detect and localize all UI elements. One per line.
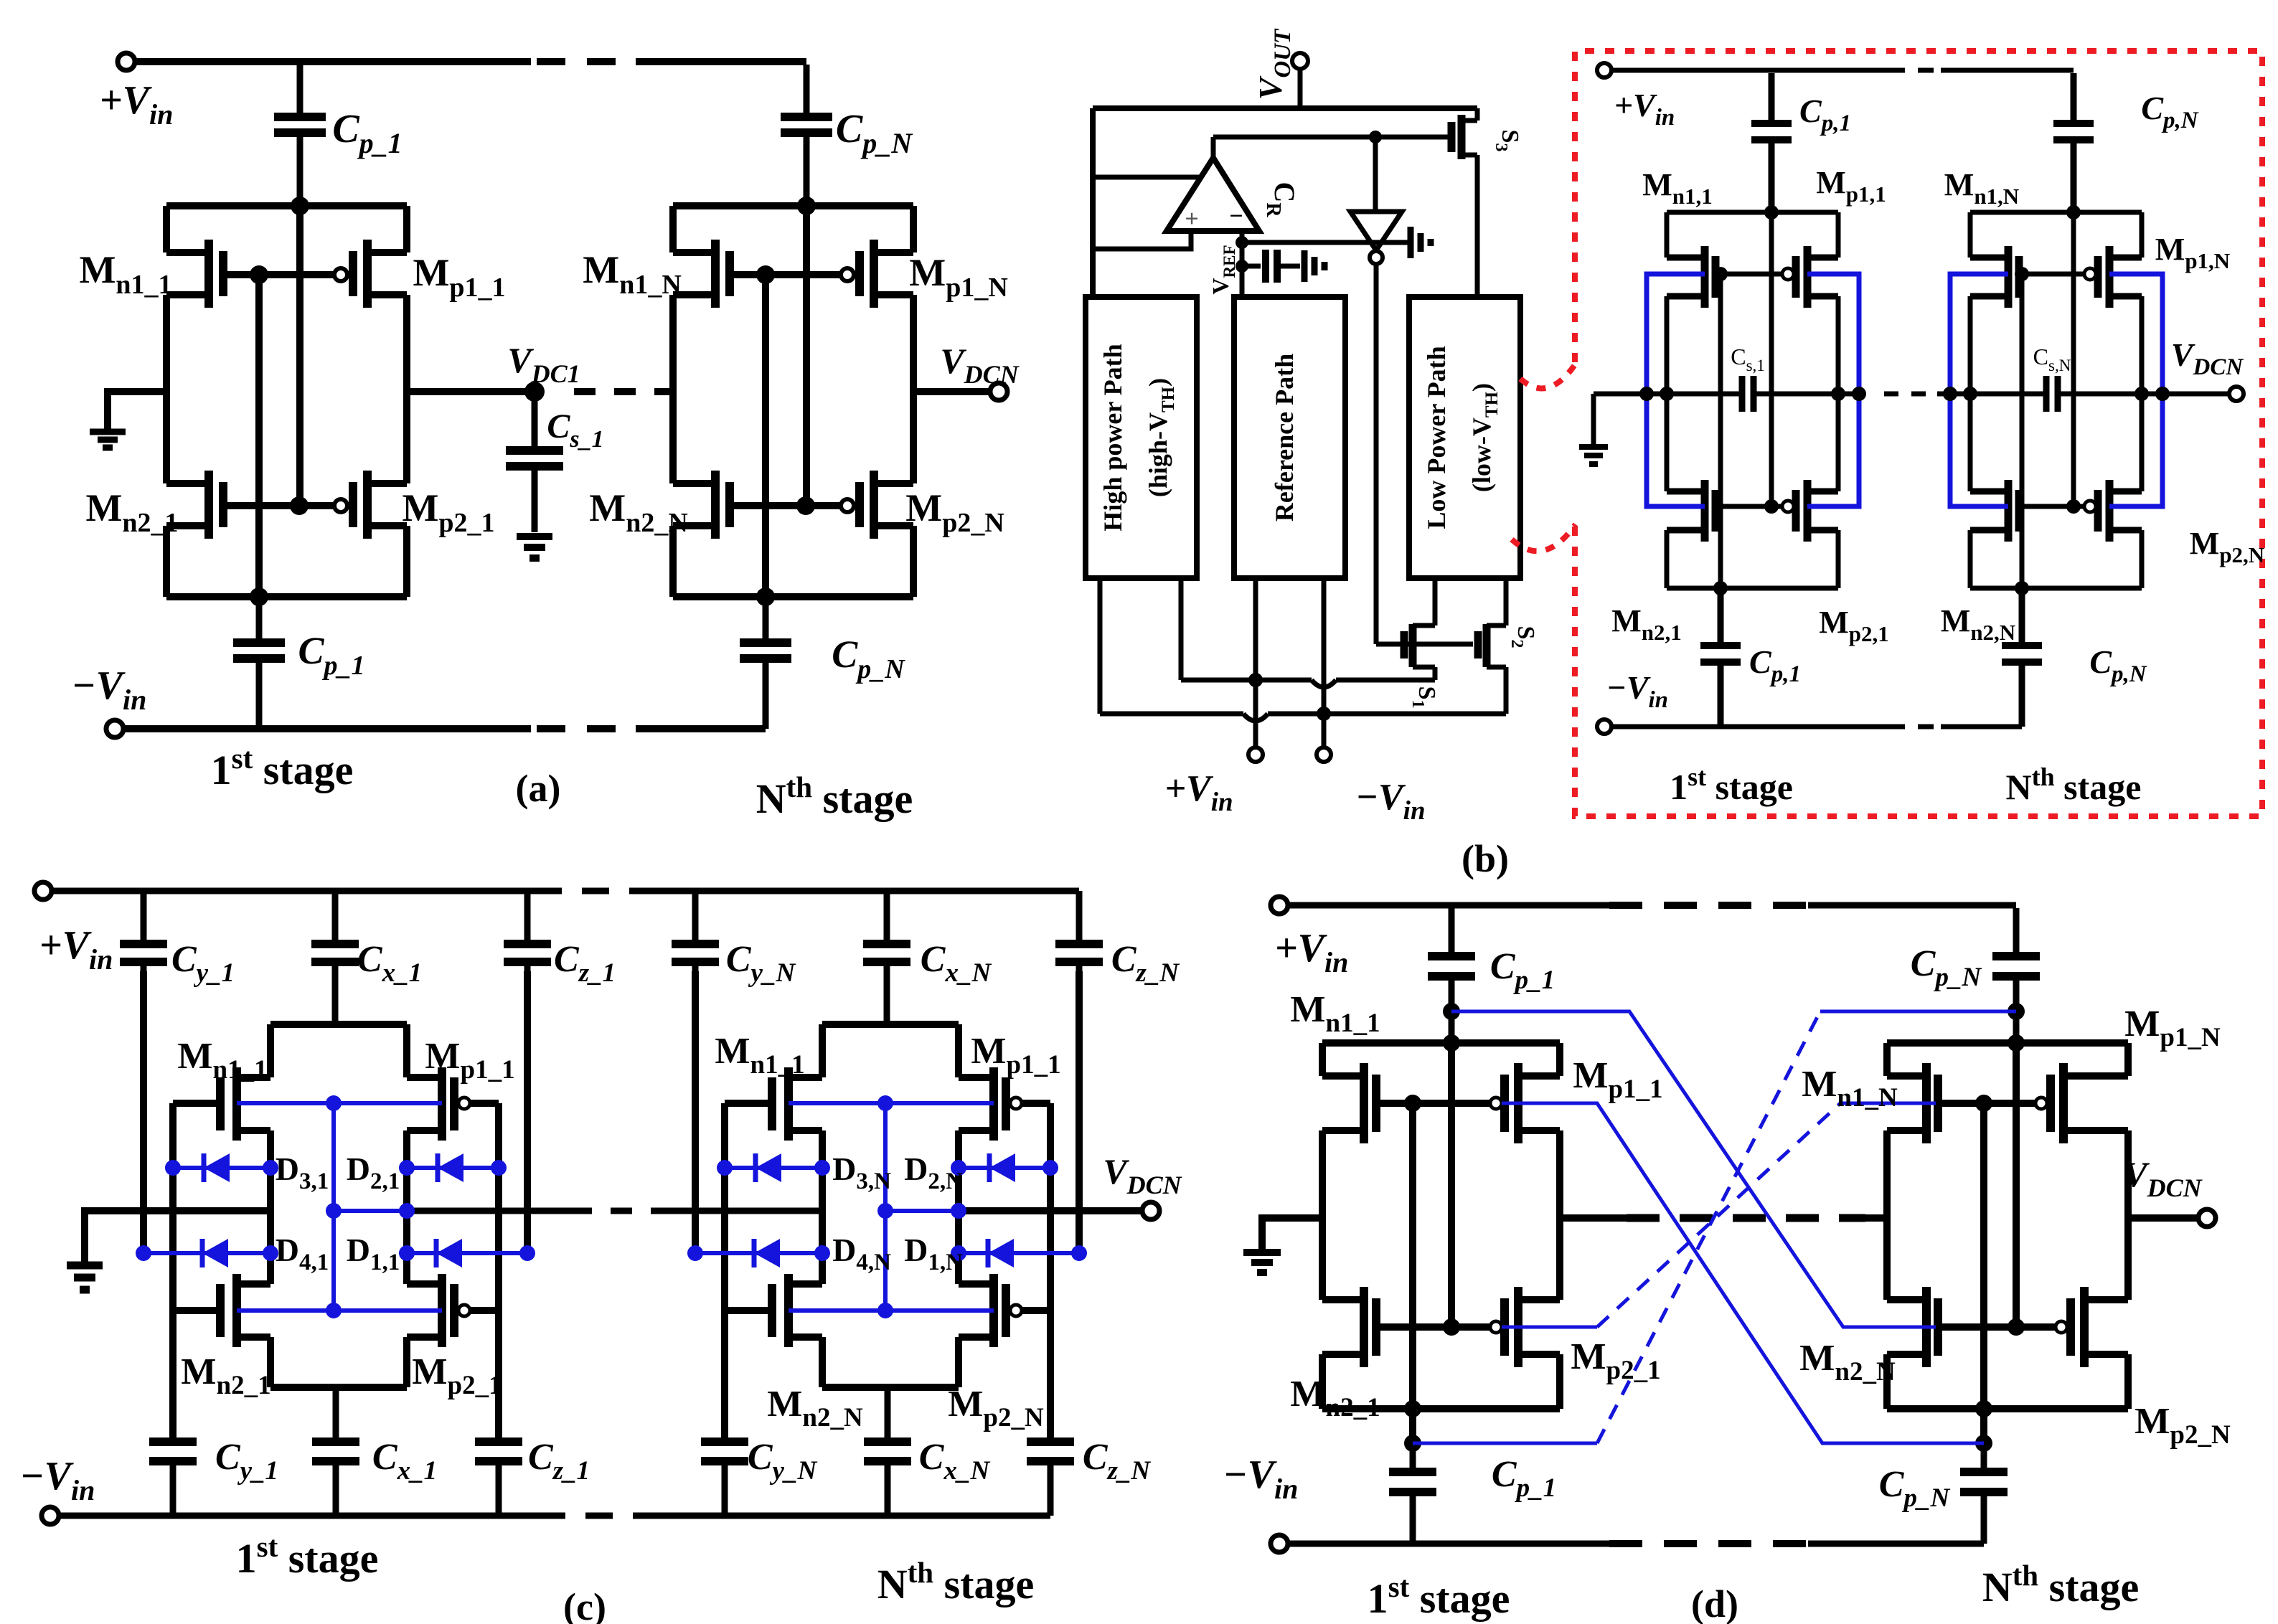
wire box right vertical (c) stage N: [955, 1024, 962, 1387]
wire box top (b right) stage N: [1970, 210, 2142, 215]
capacitor Cp_N top (a): [781, 65, 832, 206]
blue wire A top-cap to Mn2_N gate (d): [1451, 1011, 1936, 1327]
wire -Vin rail (d): [1288, 1541, 1984, 1547]
wire VDCN out (d): [2128, 1214, 2198, 1222]
ground below Cs_1 (a): [517, 537, 552, 558]
transistor Mn1 (c) stage N: [772, 1067, 822, 1141]
transistor Mn2_N (d): [1887, 1287, 1938, 1367]
wire -Vin rail dashes (a): [537, 725, 636, 732]
wire cap-to-lower-gate vertical (b right) stage N: [2071, 212, 2076, 506]
svg-text:Low Power Path: Low Power Path: [1422, 346, 1451, 529]
wire Mn1 gate lead (b right) stage 1: [1715, 272, 1721, 277]
diode D4,1 (c): [143, 1239, 270, 1267]
capacitor VREF bypass (b): [1242, 250, 1300, 283]
wire box right vertical (c) stage 1: [403, 1024, 410, 1387]
wire Cy vertical to D4 (c) stage N: [692, 971, 699, 1253]
node box top node (d) stage N: [2008, 1034, 2025, 1052]
wire gate line upper (a) stage 1: [259, 271, 334, 278]
wire Cz vertical to D1 (c) stage N: [1076, 971, 1083, 1253]
red dashed enclosure (b): [1575, 51, 2262, 816]
transistor Mn2,1 (b right): [1667, 480, 1715, 542]
wire box bottom (d) stage N: [1887, 1405, 2128, 1412]
wire cap-to-lower-gate vertical (a) stage 1: [296, 206, 303, 506]
ground right of inverter (b): [1411, 227, 1431, 258]
node upper gate node (b right) stage N: [2015, 267, 2029, 281]
terminal +Vin (a): [118, 53, 135, 70]
wire box left vertical (b right) stage 1: [1665, 212, 1670, 588]
terminal VDCN (a): [990, 383, 1007, 400]
wire Mn1 gate lead (b right) stage N: [2019, 272, 2022, 277]
wire lower gate line (d) stage N: [1938, 1323, 2056, 1331]
wire -Vin rail (b right): [1613, 724, 2022, 730]
node gate node upper (a) stage 1: [250, 265, 268, 284]
wire ground lead (c): [81, 1207, 88, 1264]
wire box top (d) stage 1: [1322, 1039, 1560, 1047]
blue gate bracket right (b right) stage N: [2109, 274, 2162, 506]
wire box right vertical (b right) stage 1: [1836, 212, 1841, 588]
transistor Mn2 (c) stage N: [772, 1274, 822, 1347]
transistor Mn1_N (a): [673, 240, 730, 308]
blue mid link (c) stage N: [885, 1209, 959, 1213]
wire Mn2 gate lead (a) stage 1: [223, 502, 299, 509]
wire gate-to-bottom vertical (a) stage N: [762, 275, 769, 597]
node lower gate node (b right) stage N: [2066, 499, 2081, 514]
capacitor Cy_N top (c): [672, 891, 719, 971]
capacitor Cp,1 top (b right): [1751, 73, 1792, 210]
transistor Mp1 (c) stage 1: [407, 1067, 454, 1141]
node rail blue right (b right) stage N: [2135, 387, 2149, 401]
block Reference Path (b): [1234, 297, 1345, 578]
wire Mp1 gate vertical (c) stage 1: [495, 1103, 502, 1442]
node VREF upper node (b): [1236, 236, 1248, 249]
wire -Vin rail dashes (c): [538, 1513, 656, 1519]
blue gate line lower (c) stage 1: [237, 1308, 442, 1313]
wire VOUT lead (b): [1298, 69, 1303, 108]
diode D4,N (c): [695, 1239, 822, 1267]
wire box bottom (b right) stage N: [1970, 586, 2142, 591]
transistor Mp2_1 (a): [334, 499, 347, 512]
wire ground stub (a): [108, 392, 166, 430]
panel (c) diode-assisted rectifier: [0, 0, 1, 1]
node blue tap bottom (d) stage 1: [1404, 1435, 1421, 1452]
svg-text:Reference Path: Reference Path: [1270, 354, 1299, 521]
red dashed pointer lower (b): [1512, 524, 1576, 551]
diode D1,N (c): [959, 1239, 1079, 1267]
wire cap-to-lower-gate vertical (d) stage 1: [1448, 1043, 1455, 1327]
wire Reference left lead (b): [1253, 578, 1258, 680]
capacitor Cp_1 bottom (a): [233, 597, 285, 729]
capacitor Cz_1 bottom (c): [475, 1442, 522, 1516]
transistor Mp2_N (d): [2056, 1321, 2067, 1333]
wire mid rail to Nth stage (a): [664, 388, 673, 395]
diode D1,1 (c): [407, 1239, 527, 1267]
capacitor Cp,N bottom (b right): [2002, 588, 2042, 727]
terminal -Vin (b right): [1597, 719, 1611, 734]
wire ground stub (d): [1262, 1218, 1322, 1250]
svg-text:High power Path: High power Path: [1098, 344, 1127, 531]
wire Mp1 gate vertical (c) stage N: [1047, 1103, 1054, 1442]
transistor Mn2_N (a): [673, 471, 730, 539]
wire lower gate line (d) stage 1: [1376, 1323, 1490, 1331]
wire -Vin rail (b): [1100, 712, 1506, 717]
wire mid rail to stage N (d): [1865, 1214, 1887, 1222]
transistor Mn2_1 (a): [166, 471, 223, 539]
transistor Mp1_1 (d): [1490, 1097, 1502, 1109]
capacitor Cp_N bottom (d): [1960, 1443, 2008, 1544]
wire box top (c) stage N: [822, 1021, 959, 1028]
wire box left vertical (a) stage N: [669, 206, 677, 597]
wire Cz vertical to D1 (c) stage 1: [524, 971, 531, 1253]
capacitor Cx_1 bottom (c): [312, 1387, 359, 1516]
node VREF node (b): [1236, 260, 1248, 273]
wire mid rail left segment (d): [1560, 1214, 1627, 1222]
transistor Mp2 (c) stage N: [959, 1274, 1006, 1347]
wire Mp1 gate lead (c) stage N: [1022, 1100, 1050, 1107]
node top plate node (a) stage N: [797, 197, 816, 215]
node blue junctions (c) stage N: [877, 1095, 893, 1111]
blue center vertical (c) stage N: [883, 1103, 888, 1311]
blue dashed wire D stage-1 bottom to Cp_N top (d): [1413, 1442, 1597, 1445]
capacitor Cp_1 bottom (d): [1389, 1443, 1436, 1544]
transistor Mp1,N (b right): [2084, 268, 2096, 280]
wire box right vertical (b right) stage N: [2140, 212, 2145, 588]
wire box top (d) stage N: [1887, 1039, 2128, 1047]
wire High power right lead (b): [1179, 578, 1184, 680]
wire op-amp minus input (b): [1240, 231, 1245, 244]
wire box left vertical (a) stage 1: [163, 206, 170, 597]
transistor Mn2 (c) stage 1: [220, 1274, 270, 1347]
wire inverter input (b): [1373, 137, 1378, 212]
capacitor Cz_1 top (c): [504, 891, 551, 971]
node top node (b right) stage N: [2066, 205, 2081, 219]
node blue tap top (d) stage N: [2008, 1003, 2025, 1020]
wire top rail (d): [1288, 902, 2016, 909]
svg-text:Nth stage: Nth stage: [877, 1556, 1035, 1608]
wire cap-to-lower-gate vertical (a) stage N: [803, 206, 810, 506]
block Low Power Path (b): [1409, 297, 1520, 578]
wire box top (b right) stage 1: [1667, 210, 1838, 215]
wire gate line lower (a) stage N: [806, 502, 841, 509]
wire box top (c) stage 1: [270, 1021, 407, 1028]
wire mid rail dashes (b right): [1884, 392, 1937, 397]
wire -Vin rail (c): [59, 1513, 1050, 1519]
ground (b right): [1579, 447, 1608, 464]
wire gate line S1 S2 (b): [1376, 642, 1473, 647]
svg-text:Nth stage: Nth stage: [1982, 1559, 2140, 1610]
terminal VDCN (d): [2198, 1209, 2216, 1227]
capacitor Cz_N top (c): [1055, 891, 1103, 971]
terminal +Vin (b): [1248, 747, 1263, 762]
svg-text:+: +: [1185, 206, 1198, 232]
capacitor Cx_N bottom (c): [864, 1387, 911, 1516]
wire High power left lead (b): [1098, 578, 1103, 714]
wire Mn1 gate lead (c) stage 1: [173, 1100, 220, 1107]
wire comparator output line (b): [1213, 135, 1449, 140]
wire top bus (b): [1093, 105, 1477, 111]
terminal +Vin (c): [34, 882, 52, 900]
svg-text:(a): (a): [516, 767, 561, 810]
wire gate line lower (a) stage 1: [299, 502, 334, 509]
red dashed pointer upper (b): [1520, 364, 1576, 388]
capacitor Cy_1 top (c): [120, 891, 167, 971]
transistor Mp2_1 (d): [1490, 1321, 1502, 1333]
capacitor Cx_N top (c): [863, 891, 910, 1024]
diode D3,N (c): [725, 1153, 822, 1182]
node rail blue left (b right) stage N: [1943, 387, 1957, 401]
blue gate bracket right (b right) stage 1: [1807, 274, 1859, 506]
ground (a): [90, 432, 126, 448]
node gate node lower (a) stage 1: [290, 496, 309, 515]
wire box bottom (c) stage 1: [270, 1384, 407, 1391]
capacitor Cx_1 top (c): [311, 891, 359, 1024]
node blue tap bottom (d) stage N: [1975, 1435, 1992, 1452]
node upper gate node (d) stage N: [1975, 1095, 1992, 1112]
wire top rail (c): [52, 888, 1079, 894]
wire gate-to-bottom vertical (b right) stage 1: [1718, 274, 1723, 588]
wire upper gate line (d) stage 1: [1376, 1100, 1490, 1107]
wire stage box top (a) stage N: [673, 202, 913, 209]
wire box right vertical (d) stage 1: [1556, 1043, 1563, 1409]
panel (a) cross-coupled rectifier: [0, 0, 1, 1]
wire -Vin rail to Nth stage (a): [636, 725, 766, 732]
capacitor Cp,N top (b right): [2053, 73, 2094, 210]
blue gate line upper (c) stage 1: [237, 1101, 442, 1105]
wire lower gate line (b right) stage N: [2019, 504, 2084, 509]
wire top rail (b right): [1613, 68, 2074, 73]
wire mid rail stage1 (b right): [1647, 392, 1859, 397]
wire Reference right lead (b): [1322, 578, 1327, 714]
wire Mn2 gate lead (c) stage 1: [173, 1307, 220, 1314]
node upper gate node (d) stage 1: [1404, 1095, 1421, 1112]
wire +Vin terminal lead (b): [1253, 680, 1258, 747]
wire gate line upper (a) stage N: [766, 271, 841, 278]
wire VDC1 output (a): [407, 388, 535, 395]
transistor Mn1_1 (a): [166, 240, 223, 308]
capacitor Cp_1 top (d): [1428, 908, 1475, 1043]
wire Mn1 gate lead (a) stage N: [730, 271, 766, 278]
wire box left vertical (c) stage N: [819, 1024, 826, 1387]
capacitor Cs_1 (a): [506, 392, 563, 532]
wire stage box bottom (a) stage 1: [166, 593, 407, 600]
transistor Mp1_N (a): [841, 268, 854, 281]
terminal VDCN (b right): [2229, 387, 2244, 401]
capacitor Cp_N bottom (a): [740, 597, 791, 729]
node top node (b right) stage 1: [1764, 205, 1779, 219]
block High power Path (b): [1086, 297, 1197, 578]
transistor Mp1,1 (b right): [1782, 268, 1794, 280]
diode D3,1 (c): [173, 1153, 270, 1182]
wire -Vin rail dashes (d): [1609, 1540, 1808, 1547]
wire inverter output down (b): [1374, 264, 1379, 644]
wire top rail dashes (b right): [1889, 68, 1941, 73]
svg-text:Nth stage: Nth stage: [756, 770, 913, 822]
wire gate-to-bottom vertical (d) stage 1: [1409, 1103, 1416, 1443]
capacitor Cs,1 (b right): [1742, 376, 1754, 412]
ground (c): [67, 1265, 103, 1290]
node lower gate node (d) stage N: [2008, 1318, 2025, 1336]
transistor Mp2_N (a): [841, 499, 854, 512]
wire top rail dashes (d): [1609, 902, 1808, 909]
transistor Mp1_N (d): [2035, 1097, 2047, 1109]
wire box bottom (d) stage 1: [1322, 1405, 1560, 1412]
wire box left vertical (c) stage 1: [267, 1024, 274, 1387]
wire top rail to Nth stage (a): [636, 58, 806, 65]
wire lower gate line (b right) stage 1: [1715, 504, 1782, 509]
wire gate-to-bottom vertical (d) stage N: [1980, 1103, 1987, 1443]
node bottom plate node (a) stage 1: [250, 587, 268, 606]
wire VREF vertical (b): [1240, 242, 1245, 297]
blue mid link (c) stage 1: [334, 1209, 407, 1213]
wire op-amp plus input stub (b): [1093, 231, 1191, 249]
node blue tap top (d) stage 1: [1443, 1003, 1460, 1020]
wire Mn1 gate lead (c) stage N: [725, 1100, 772, 1107]
blue gate line lower (c) stage N: [789, 1308, 994, 1313]
node VDC1 (a): [524, 382, 545, 402]
wire top rail dashes (c): [535, 888, 656, 894]
inverter U2 (b): [1350, 212, 1402, 250]
wire box right vertical (a) stage 1: [403, 206, 410, 597]
transistor Mn1_N (d): [1887, 1063, 1938, 1143]
wire Mp2 gate lead (c) stage N: [1022, 1307, 1050, 1314]
node bottom node (b right) stage N: [2015, 581, 2029, 595]
capacitor Cp,1 bottom (b right): [1700, 588, 1741, 727]
wire top rail dashes (a): [537, 58, 636, 65]
wire gate-to-bottom vertical (a) stage 1: [255, 275, 263, 597]
terminal -Vin (d): [1271, 1535, 1288, 1552]
wire mid rail dashes (c): [570, 1208, 656, 1214]
node upper gate node (b right) stage 1: [1713, 267, 1728, 281]
node blue junctions (c) stage 1: [326, 1095, 342, 1111]
terminal +Vin (b right): [1597, 63, 1611, 77]
node gate node lower (a) stage N: [796, 496, 815, 515]
transistor Mp1_1 (a): [334, 268, 347, 281]
diode D2,N (c): [959, 1153, 1050, 1182]
blue gate bracket left (b right) stage 1: [1647, 274, 1705, 506]
wire mid rail dashes (d): [1627, 1214, 1865, 1222]
wire box left vertical (d) stage 1: [1319, 1043, 1326, 1409]
transistor Mp2 (c) stage 1: [407, 1274, 454, 1347]
wire stage box bottom (a) stage N: [673, 593, 913, 600]
node rail blue left (b right) stage 1: [1639, 387, 1654, 401]
wire cap-to-lower-gate vertical (b right) stage 1: [1769, 212, 1774, 506]
terminal -Vin (c): [42, 1507, 59, 1524]
wire Mp1 gate lead (c) stage 1: [470, 1100, 499, 1107]
wire VDCN out (b right): [2162, 392, 2228, 397]
wire cap-to-lower-gate vertical (d) stage N: [2013, 1043, 2020, 1327]
node bottom plate node (a) stage N: [756, 587, 775, 606]
wire Mn1 gate vertical (c) stage 1: [169, 1103, 177, 1442]
terminal -Vin (a): [106, 720, 123, 737]
ground (d): [1243, 1252, 1281, 1273]
wire mid rail dashes (a): [574, 388, 664, 395]
node lower gate node (d) stage 1: [1443, 1318, 1460, 1336]
wire upper gate line (b right) stage N: [2022, 272, 2084, 277]
wire mid rail between stages (c): [407, 1208, 822, 1214]
transistor Mp1 (c) stage N: [959, 1067, 1006, 1141]
transistor Mn2,N (b right): [1970, 480, 2019, 542]
wire -Vin dashes (b right): [1889, 724, 1941, 730]
wire box bottom (b right) stage 1: [1667, 586, 1838, 591]
blue gate line upper (c) stage N: [789, 1101, 994, 1105]
transistor Mp2,1 (b right): [1782, 501, 1794, 512]
wire box left vertical (d) stage N: [1883, 1043, 1891, 1409]
wire Mn1 gate lead (a) stage 1: [223, 271, 259, 278]
wire Mn2 gate lead (c) stage N: [725, 1307, 772, 1314]
wire Cy vertical to D4 (c) stage 1: [140, 971, 147, 1253]
wire S3 source down (b): [1475, 155, 1480, 297]
capacitor Cp_1 top (a): [274, 65, 326, 206]
node gate node upper (a) stage N: [756, 265, 775, 284]
node bottom node (b right) stage 1: [1713, 581, 1728, 595]
capacitor Cy_N bottom (c): [701, 1442, 748, 1516]
wire stage box top (a) stage 1: [166, 202, 407, 209]
wire -Vin rail (a): [123, 725, 531, 732]
diode D2,1 (c): [407, 1153, 499, 1182]
transistor S2 (b): [1478, 578, 1506, 714]
wire VDCN output (a): [913, 388, 990, 395]
wire gate-to-bottom vertical (b right) stage N: [2020, 274, 2025, 588]
wire -Vin terminal lead (b): [1322, 714, 1327, 747]
wire upper gate line (b right) stage 1: [1721, 272, 1782, 277]
panel (b) control block diagram: [0, 0, 1, 1]
node bottom node (d) stage 1: [1404, 1400, 1421, 1417]
terminal VOUT (b): [1292, 53, 1308, 69]
wire VREF to inverter ground (b): [1242, 240, 1408, 245]
capacitor Cp_N top (d): [1992, 908, 2040, 1043]
wire upper gate line (d) stage N: [1938, 1100, 2035, 1107]
transistor Mn1,1 (b right): [1667, 246, 1715, 308]
node box top node (d) stage 1: [1443, 1034, 1460, 1052]
node bottom node (d) stage N: [1975, 1400, 1992, 1417]
wire Mn2 gate lead (a) stage N: [730, 502, 806, 509]
node top plate node (a) stage 1: [291, 197, 309, 215]
wire mid rail left (c): [85, 1207, 270, 1214]
wire VDCN out (c): [959, 1207, 1142, 1214]
transistor S1 (b): [1404, 578, 1435, 680]
transistor Mp2,N (b right): [2084, 501, 2096, 512]
wire box left vertical (b right) stage N: [1968, 212, 1973, 588]
wire Mp2 gate lead (c) stage 1: [470, 1307, 499, 1314]
wire op-amp upper input stub (b): [1093, 175, 1201, 180]
wire box right vertical (a) stage N: [910, 206, 917, 597]
blue wire B Mp1_1 gate to stage-N bottom (d): [1502, 1103, 1984, 1443]
wire op-amp output (b): [1211, 137, 1216, 158]
blue center vertical (c) stage 1: [331, 1103, 336, 1311]
svg-text:(b): (b): [1462, 837, 1509, 880]
op-amp U1 (b): [1167, 158, 1259, 231]
capacitor Cy_1 bottom (c): [149, 1442, 197, 1516]
wire S3 drain to bus (b): [1475, 108, 1480, 121]
terminal -Vin (b): [1317, 747, 1331, 762]
ground VREF cap (b): [1304, 250, 1324, 282]
transistor Mn1_1 (d): [1322, 1063, 1376, 1143]
transistor Mn2_1 (d): [1322, 1287, 1376, 1367]
capacitor Cs,N (b right): [2046, 376, 2058, 412]
capacitor Cz_N bottom (c): [1027, 1442, 1074, 1516]
wire +Vin top rail (a): [136, 58, 531, 65]
panel (d) cross-connected rectifier: [0, 0, 1, 1]
terminal +Vin (d): [1271, 897, 1288, 914]
wire box bottom (c) stage N: [822, 1384, 959, 1391]
node +Vin node (b): [1248, 673, 1263, 687]
transistor S3 (b): [1451, 115, 1477, 159]
svg-text:(c): (c): [563, 1585, 606, 1624]
svg-text:Nth stage: Nth stage: [2006, 763, 2142, 807]
blue dashed wire C Mp2_1 gate to Mn1_N gate (d): [1502, 1326, 1597, 1329]
svg-text:−: −: [1229, 203, 1243, 230]
wire mid rail stage N (b right): [1937, 392, 2162, 397]
transistor Mn1,N (b right): [1970, 246, 2019, 308]
